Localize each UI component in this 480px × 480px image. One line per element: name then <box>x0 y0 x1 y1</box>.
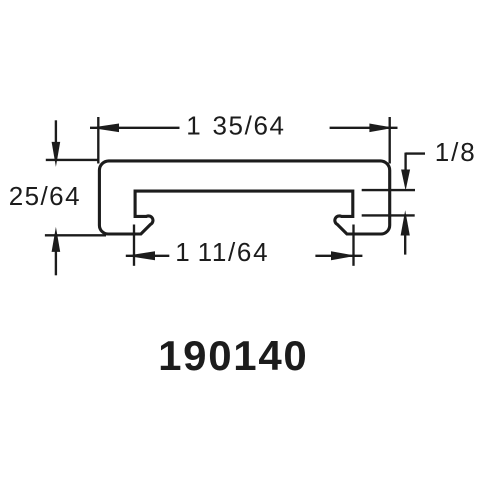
svg-text:1/8: 1/8 <box>435 137 477 167</box>
svg-text:190140: 190140 <box>158 332 308 379</box>
svg-text:11/64: 11/64 <box>198 237 270 267</box>
svg-text:1: 1 <box>186 110 202 140</box>
svg-text:1: 1 <box>175 237 191 267</box>
svg-text:25/64: 25/64 <box>9 181 81 211</box>
svg-text:35/64: 35/64 <box>213 110 286 140</box>
